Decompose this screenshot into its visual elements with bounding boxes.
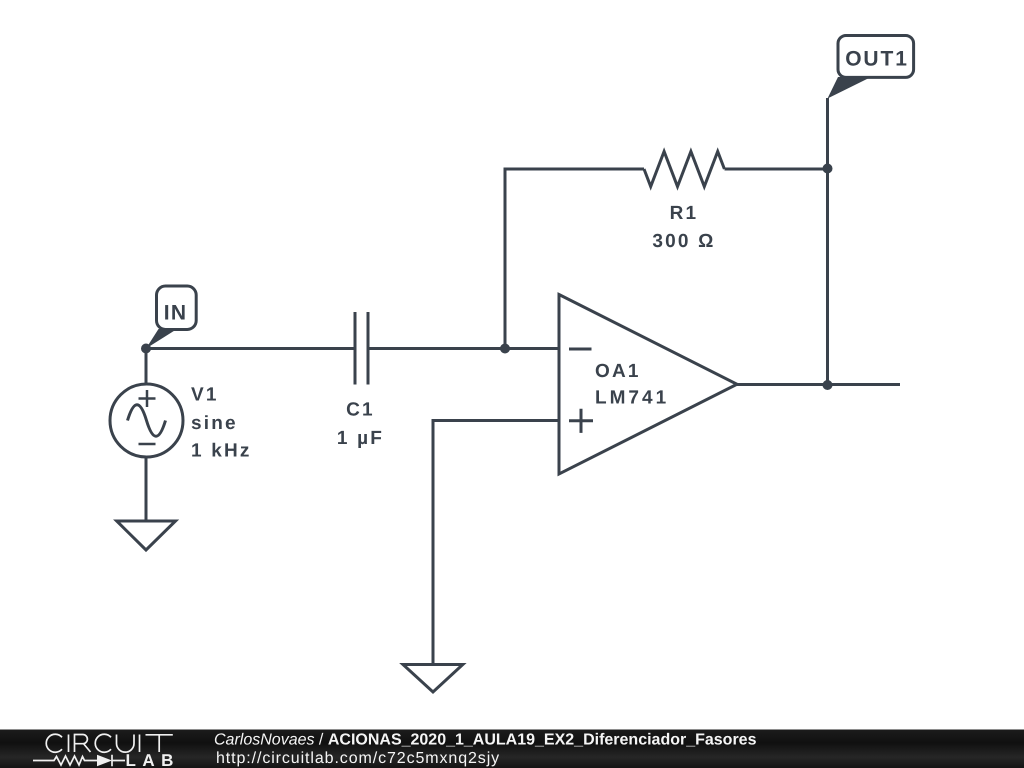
svg-text:IN: IN <box>164 302 187 325</box>
svg-text:1 kHz: 1 kHz <box>191 441 252 462</box>
svg-text:OUT1: OUT1 <box>845 48 909 71</box>
svg-text:300 Ω: 300 Ω <box>652 231 715 252</box>
svg-text:CarlosNovaes / ACIONAS_2020_1_: CarlosNovaes / ACIONAS_2020_1_AULA19_EX2… <box>214 731 757 748</box>
svg-text:LM741: LM741 <box>595 387 669 408</box>
svg-text:C1: C1 <box>346 400 375 421</box>
svg-text:http://circuitlab.com/c72c5mxn: http://circuitlab.com/c72c5mxnq2sjy <box>216 750 500 767</box>
svg-text:sine: sine <box>191 413 238 434</box>
svg-text:R1: R1 <box>670 203 699 224</box>
svg-text:1 µF: 1 µF <box>337 428 384 449</box>
svg-text:LAB: LAB <box>126 751 180 768</box>
svg-text:OA1: OA1 <box>595 361 641 382</box>
svg-text:V1: V1 <box>191 384 219 405</box>
